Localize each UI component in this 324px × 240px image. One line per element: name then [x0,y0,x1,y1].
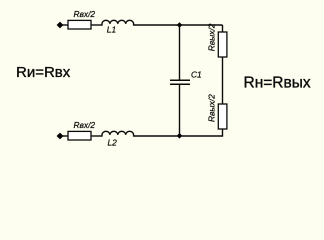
wire: right branch vertical top lead [222,25,224,32]
svg-text:C1: C1 [191,70,202,80]
node junction top (capacitor tap) [177,22,183,28]
resistor R_вых/2 top [206,23,227,57]
resistor R_вх/2 top [68,9,95,29]
wire: right branch bottom lead [180,129,223,136]
node junction bottom (capacitor tap) [177,133,183,139]
svg-text:L1: L1 [107,25,116,35]
wire top rail: terminal to R1 [62,24,68,26]
inductor L1 [102,20,134,34]
capacitor C1 [170,70,202,85]
svg-text:Rвых/2: Rвых/2 [206,23,216,51]
wire: L2 to R2 [91,135,102,137]
svg-text:L2: L2 [108,137,118,147]
wire: between right resistors [222,57,224,104]
svg-text:Rвх/2: Rвх/2 [74,9,96,19]
wire: terminal to R2 [62,135,68,137]
wire: capacitor branch lower [179,85,181,136]
inductor L2 [102,131,134,147]
resistor R_вых/2 bottom [206,94,227,129]
wire: capacitor branch upper [179,25,181,80]
wire top rail: L1 to right branch [134,24,223,26]
terminal bottom-left input [57,133,64,140]
resistor R_вх/2 bottom [68,120,95,140]
wire: R1 to L1 [91,24,102,26]
svg-text:Rн=Rвых: Rн=Rвых [244,75,311,92]
svg-text:Rи=Rвх: Rи=Rвх [16,64,71,81]
svg-text:Rвх/2: Rвх/2 [74,120,96,130]
svg-text:Rвых/2: Rвых/2 [206,94,216,122]
terminal top-left input [57,22,64,29]
wire bottom rail: junction to L2 [134,135,180,137]
